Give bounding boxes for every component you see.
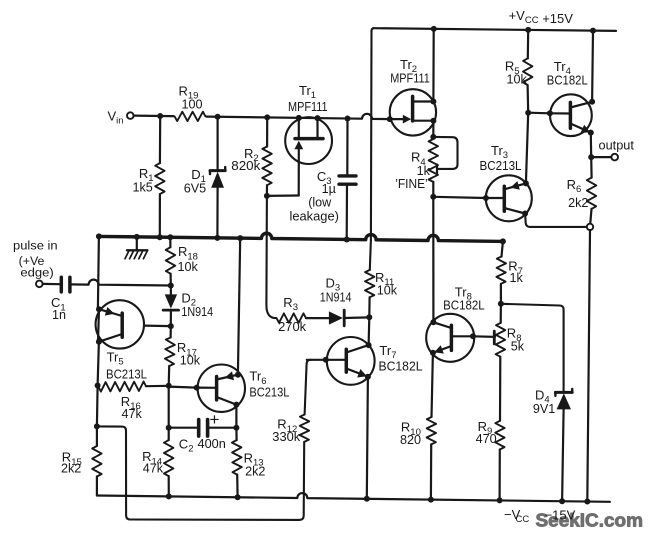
svg-text:BC182L: BC182L (379, 359, 423, 373)
svg-text:BC213L: BC213L (480, 159, 522, 173)
svg-text:pulse in: pulse in (13, 238, 58, 252)
svg-text:BC213L: BC213L (106, 368, 147, 382)
svg-text:47k: 47k (143, 462, 164, 476)
svg-text:BC182L: BC182L (547, 73, 588, 87)
svg-text:1k5: 1k5 (133, 180, 153, 194)
svg-text:270k: 270k (278, 320, 307, 334)
svg-text:edge): edge) (20, 265, 53, 279)
svg-text:100: 100 (182, 98, 203, 112)
svg-text:’FINE’: ’FINE’ (395, 177, 428, 191)
svg-text:leakage): leakage) (290, 210, 339, 224)
svg-text:(low: (low (308, 196, 332, 210)
svg-text:820: 820 (400, 433, 421, 447)
svg-text:400n: 400n (198, 437, 226, 451)
svg-text:6V5: 6V5 (184, 181, 206, 195)
svg-text:820k: 820k (231, 159, 261, 173)
svg-text:330k: 330k (272, 430, 301, 444)
svg-text:CC: CC (516, 514, 530, 525)
svg-text:1k: 1k (510, 271, 524, 285)
svg-text:10k: 10k (178, 260, 199, 274)
svg-text:1N914: 1N914 (320, 291, 352, 305)
svg-text:1n: 1n (52, 308, 66, 322)
svg-text:10k: 10k (180, 354, 201, 368)
svg-text:1µ: 1µ (322, 182, 336, 196)
svg-text:47k: 47k (122, 407, 143, 421)
svg-text:2k2: 2k2 (568, 196, 588, 210)
svg-text:10k: 10k (377, 283, 398, 297)
svg-text:BC182L: BC182L (443, 299, 485, 313)
svg-text:470: 470 (476, 432, 497, 446)
svg-text:2k2: 2k2 (245, 464, 265, 478)
svg-text:−15V: −15V (545, 507, 576, 522)
svg-text:10k: 10k (507, 73, 528, 87)
svg-text:MPF111: MPF111 (288, 100, 328, 114)
svg-text:output: output (599, 139, 635, 153)
svg-text:1N914: 1N914 (181, 305, 213, 319)
svg-text:+: + (210, 410, 220, 429)
svg-text:9V1: 9V1 (533, 402, 555, 416)
svg-text:MPF111: MPF111 (390, 72, 430, 86)
svg-text:5k: 5k (511, 339, 525, 353)
svg-text:BC213L: BC213L (249, 386, 289, 400)
svg-text:2k2: 2k2 (61, 462, 81, 476)
